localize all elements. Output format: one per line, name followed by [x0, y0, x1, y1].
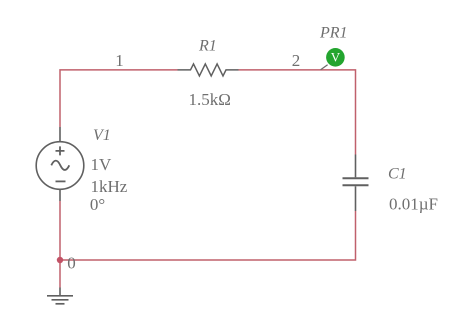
svg-text:0.01µF: 0.01µF [389, 195, 438, 214]
svg-text:1: 1 [115, 51, 124, 70]
resistor R1 [178, 64, 239, 76]
AC voltage source V1 [36, 127, 84, 201]
node A junction dot node 0 [57, 257, 63, 263]
probe PR1 body [326, 48, 345, 67]
svg-text:V: V [331, 50, 341, 65]
probe PR1 needle [321, 65, 328, 70]
svg-text:0: 0 [67, 253, 76, 272]
wire: top-right segment node 2 [239, 70, 356, 155]
svg-text:1kHz: 1kHz [91, 177, 128, 196]
wire: top-left segment node 1 [60, 70, 178, 127]
ground [47, 288, 73, 304]
capacitor C1 [343, 155, 369, 212]
svg-text:PR1: PR1 [319, 25, 348, 42]
wire: bottom segment node 0 [60, 211, 356, 260]
svg-text:V1: V1 [93, 127, 111, 144]
wire: left vertical below source [59, 201, 61, 288]
svg-text:0°: 0° [90, 195, 105, 214]
svg-text:1.5kΩ: 1.5kΩ [189, 90, 231, 109]
svg-text:1V: 1V [91, 155, 113, 174]
svg-text:2: 2 [292, 51, 301, 70]
svg-text:R1: R1 [198, 37, 217, 54]
svg-text:C1: C1 [388, 166, 407, 183]
